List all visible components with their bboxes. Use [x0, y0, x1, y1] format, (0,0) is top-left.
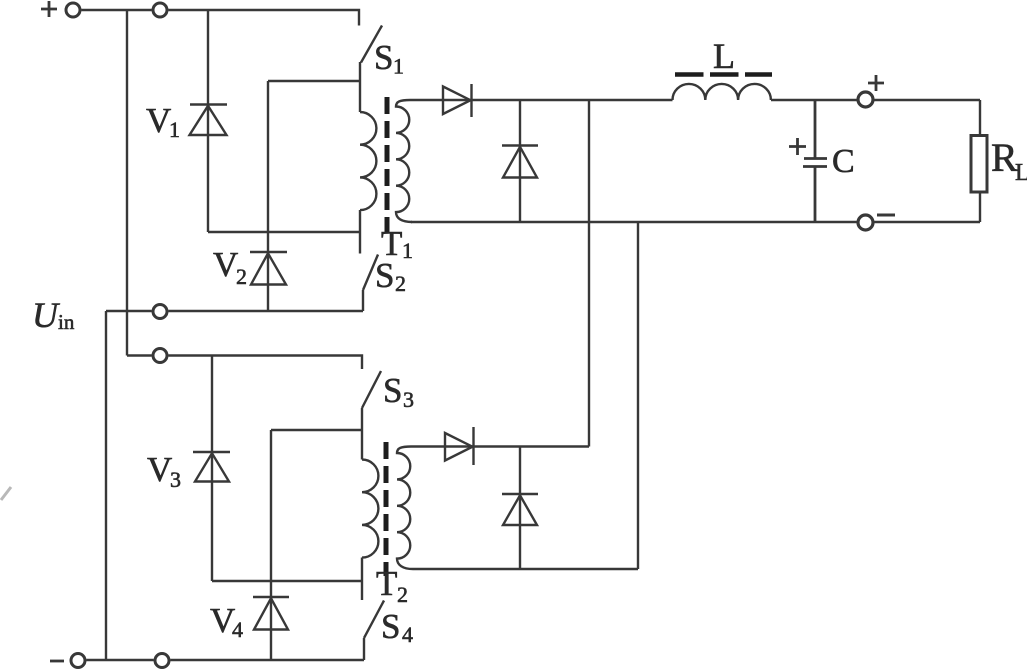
capacitor C: [803, 100, 827, 222]
wire bottom rail of top cell: [106, 310, 363, 312]
svg-text:V: V: [147, 450, 172, 489]
diode V3: [193, 356, 230, 582]
plus sign capacitor: [789, 138, 806, 155]
svg-text:1: 1: [169, 117, 180, 142]
wire lower secondary bottom: [413, 568, 638, 570]
wire V1 anode to primary bottom node: [208, 231, 360, 233]
svg-text:3: 3: [170, 467, 181, 492]
switch S1: [360, 26, 382, 113]
wire link upper rectifier node down to lower rectifier: [588, 100, 590, 447]
wire top rail: [82, 10, 360, 26]
transformer T1 secondary winding: [396, 100, 412, 222]
wire output return top: [411, 192, 980, 222]
svg-text:in: in: [58, 310, 75, 334]
diode V2: [250, 81, 287, 311]
svg-text:V: V: [213, 245, 238, 284]
diode V1: [190, 10, 228, 232]
transformer T2 secondary winding: [397, 447, 413, 570]
svg-text:1: 1: [402, 238, 413, 263]
scan artifact: [1, 487, 11, 500]
wire bottom rail: [87, 659, 365, 661]
terminal circle top second: [153, 3, 167, 17]
svg-text:4: 4: [232, 617, 243, 642]
wire primary-top node to V2 branch: [268, 80, 360, 82]
terminal circle output plus: [858, 92, 873, 107]
transformer T2 primary winding: [362, 460, 378, 601]
wire lower cell feed: [127, 356, 362, 370]
inductor L winding: [673, 84, 771, 100]
terminal circle lower cell plus: [153, 349, 167, 363]
svg-text:2: 2: [395, 271, 406, 296]
svg-text:2: 2: [236, 264, 247, 289]
rectifier diode lower cell: [411, 427, 589, 465]
svg-text:C: C: [832, 143, 855, 180]
wire left rail x=106: [105, 311, 107, 660]
svg-text:S: S: [374, 38, 393, 77]
transformer T1 core: [385, 97, 390, 233]
switch S2: [363, 255, 378, 312]
svg-text:S: S: [375, 256, 394, 295]
terminal circle bottom second: [155, 654, 169, 668]
svg-text:2: 2: [397, 582, 408, 607]
switch S4: [364, 601, 384, 661]
wire output top: [472, 100, 981, 135]
terminal circle top-left: [66, 3, 80, 17]
svg-text:4: 4: [402, 622, 413, 647]
inductor L core: [675, 72, 772, 77]
wire V3 anode to lower primary bottom node: [212, 580, 362, 582]
switch S3: [362, 371, 381, 460]
wire left rail x=127 down to lower cell feed: [126, 10, 128, 356]
rectifier diode top cell: [410, 84, 472, 117]
freewheeling diode lower cell: [502, 447, 538, 570]
transformer T1 primary winding: [360, 112, 376, 254]
svg-text:1: 1: [393, 54, 404, 79]
wire lower primary-top node to V4 branch: [271, 429, 362, 431]
svg-text:S: S: [381, 607, 400, 646]
svg-text:L: L: [1015, 160, 1027, 186]
plus sign output: [868, 75, 884, 91]
minus input terminal sign: [50, 660, 64, 663]
diode V4: [253, 430, 289, 660]
plus input terminal sign: [41, 1, 57, 17]
transformer T2 core: [384, 442, 389, 576]
resistor RL: [971, 136, 987, 193]
svg-text:T: T: [376, 564, 397, 603]
svg-text:S: S: [383, 371, 402, 410]
svg-text:V: V: [146, 101, 171, 140]
svg-text:R: R: [991, 135, 1018, 180]
terminal circle Uin minus: [153, 305, 167, 319]
svg-text:L: L: [713, 36, 735, 76]
terminal circle bottom-left: [71, 654, 85, 668]
svg-text:3: 3: [403, 387, 414, 412]
svg-text:U: U: [32, 295, 60, 335]
minus sign output: [877, 214, 895, 217]
freewheeling diode top cell: [502, 100, 538, 222]
wire link return down to lower secondary bottom: [637, 222, 639, 569]
terminal circle output minus: [858, 215, 873, 230]
